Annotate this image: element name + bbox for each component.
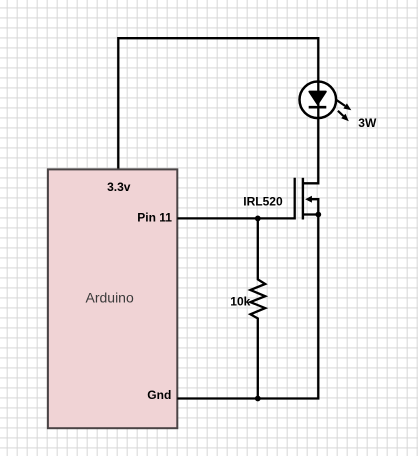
wire 3.3v pin up, across top, down through LED to MOSFET drain — [118, 38, 318, 183]
wire Pin 11 to MOSFET gate — [177, 178, 294, 219]
MOSFET Q1 body connection with arrow — [305, 196, 318, 215]
svg-text:IRL520: IRL520 — [243, 195, 283, 209]
resistor R1 10k (zigzag) — [250, 218, 265, 398]
svg-text:Arduino: Arduino — [86, 289, 134, 305]
LED light arrow 1 — [336, 100, 351, 110]
MOSFET Q1 source bar — [303, 213, 318, 215]
svg-text:Pin 11: Pin 11 — [137, 210, 172, 224]
junction dot resistor bottom / gnd net — [255, 396, 261, 402]
LED light arrow 2 — [338, 111, 349, 121]
svg-text:3.3v: 3.3v — [107, 180, 131, 194]
LED D1 cathode bar — [309, 106, 327, 109]
LED D1 triangle (anode) — [309, 92, 325, 105]
svg-text:Gnd: Gnd — [147, 388, 171, 402]
LED D1 body circle — [300, 82, 337, 119]
junction dot gate node / resistor top — [255, 216, 261, 222]
svg-text:3W: 3W — [358, 116, 377, 130]
MOSFET Q1 source junction dot — [315, 212, 321, 218]
MOSFET Q1 channel bar — [302, 178, 304, 220]
svg-text:10k: 10k — [230, 295, 250, 309]
wire MOSFET source down and Gnd return to Arduino — [177, 215, 318, 399]
Arduino block U1 — [48, 169, 177, 428]
